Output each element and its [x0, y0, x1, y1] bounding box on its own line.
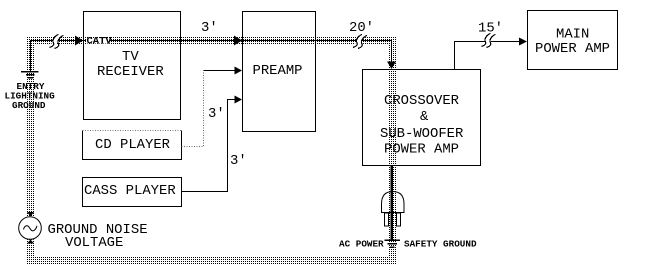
svg-text:CATV: CATV: [87, 36, 113, 48]
svg-text:15': 15': [478, 21, 503, 37]
svg-text:CROSSOVER: CROSSOVER: [384, 93, 459, 109]
svg-text:CD PLAYER: CD PLAYER: [95, 137, 170, 153]
svg-text:3': 3': [201, 20, 218, 36]
svg-text:AC POWER: AC POWER: [339, 239, 384, 250]
svg-text:TV: TV: [122, 49, 139, 65]
svg-text:POWER AMP: POWER AMP: [535, 41, 610, 57]
svg-text:CASS PLAYER: CASS PLAYER: [84, 183, 176, 199]
svg-text:SAFETY GROUND: SAFETY GROUND: [404, 239, 477, 250]
svg-text:3': 3': [230, 153, 247, 169]
svg-text:20': 20': [349, 20, 374, 36]
svg-text:RECEIVER: RECEIVER: [97, 64, 164, 80]
svg-text:3': 3': [208, 106, 225, 122]
svg-text:POWER AMP: POWER AMP: [384, 142, 459, 158]
svg-text:SUB-WOOFER: SUB-WOOFER: [380, 126, 463, 142]
svg-text:&: &: [420, 109, 429, 125]
svg-text:VOLTAGE: VOLTAGE: [65, 235, 123, 251]
svg-text:PREAMP: PREAMP: [253, 63, 303, 79]
svg-text:GROUND: GROUND: [12, 100, 46, 111]
